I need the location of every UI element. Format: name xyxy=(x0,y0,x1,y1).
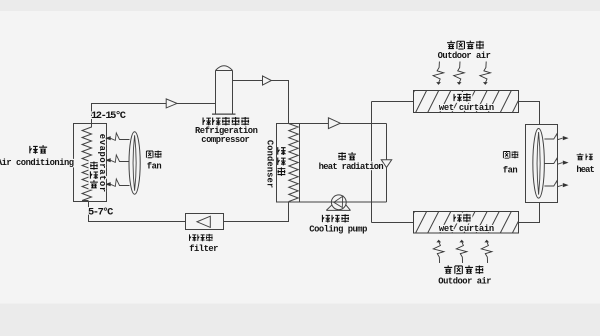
svg-text:heat radiation: heat radiation xyxy=(319,162,384,172)
svg-text:5-7°C: 5-7°C xyxy=(88,207,113,219)
svg-text:evaporator: evaporator xyxy=(97,134,107,193)
svg-text:12-15°C: 12-15°C xyxy=(91,110,126,122)
svg-text:compressor: compressor xyxy=(201,135,249,145)
svg-text:fan: fan xyxy=(147,161,162,171)
svg-text:filter: filter xyxy=(189,244,218,254)
svg-text:wet curtain: wet curtain xyxy=(439,224,494,234)
svg-text:fan: fan xyxy=(503,166,518,176)
svg-text:Outdoor air: Outdoor air xyxy=(438,276,491,286)
svg-text:Condenser: Condenser xyxy=(264,140,274,188)
svg-text:Outdoor air: Outdoor air xyxy=(438,51,491,61)
svg-text:Cooling pump: Cooling pump xyxy=(309,225,367,235)
svg-text:wet curtain: wet curtain xyxy=(439,103,494,113)
svg-text:heat: heat xyxy=(576,165,594,175)
svg-text:Air conditioning: Air conditioning xyxy=(0,158,74,168)
